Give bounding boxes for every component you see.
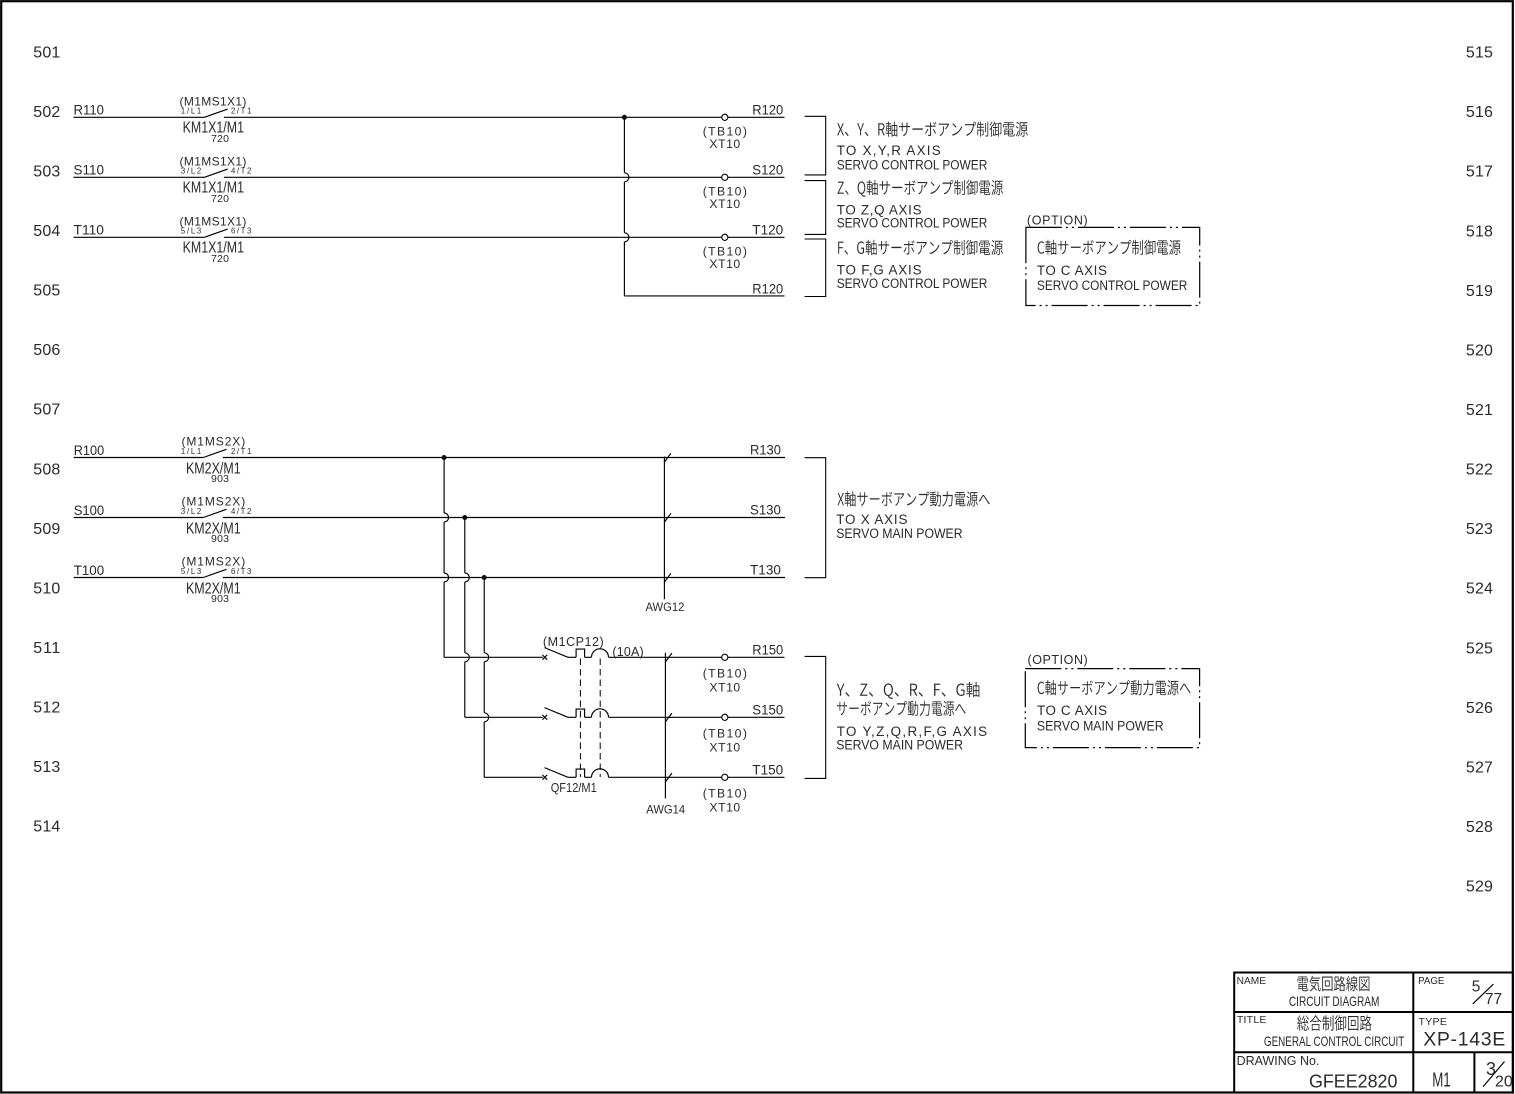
svg-text:(M1CP12): (M1CP12) [543,635,604,649]
svg-text:SERVO MAIN POWER: SERVO MAIN POWER [836,526,963,541]
contactor contact KM2X/M1 pole 3/L2-4/T2 [203,509,226,517]
wire breaker pole 2 to terminal S150 [609,716,785,718]
circuit breaker QF12/M1 pole 3 [542,768,608,780]
svg-text:T150: T150 [752,761,783,777]
svg-text:4/T2: 4/T2 [231,507,251,516]
annotation Z,Q axis servo control power (JP) [838,180,1003,197]
wire breaker pole 1 to terminal R150 [609,656,785,658]
svg-text:M1: M1 [1432,1069,1451,1092]
svg-text:510: 510 [33,580,60,597]
svg-text:513: 513 [33,759,60,776]
svg-text:XT10: XT10 [709,197,740,211]
wire hop over R150 wire [465,653,470,662]
annotation X,Y,R axis servo control power (JP) [837,122,1028,137]
svg-text:(OPTION): (OPTION) [1027,214,1088,228]
svg-text:5: 5 [1472,979,1481,996]
wire hop over T-row wire [624,233,629,242]
svg-text:GENERAL CONTROL CIRCUIT: GENERAL CONTROL CIRCUIT [1264,1033,1405,1049]
svg-text:XT10: XT10 [709,740,740,754]
svg-text:503: 503 [33,163,60,180]
svg-text:R100: R100 [74,442,105,458]
svg-text:(TB10): (TB10) [703,787,747,801]
wire to breaker pole 3 [484,776,543,778]
wire R100 to R130 [223,457,785,459]
svg-text:TO C AXIS: TO C AXIS [1037,703,1107,718]
wire T100 branch down to breaker pole 3 [483,578,485,653]
svg-text:XT10: XT10 [709,800,740,814]
svg-text:1/L1: 1/L1 [181,107,201,116]
junction node R120 bus [622,115,627,120]
svg-text:TITLE: TITLE [1237,1014,1267,1026]
wire T100 to T130 [223,577,785,579]
circuit breaker QF12/M1 pole 2 [542,708,608,720]
svg-text:SERVO MAIN POWER: SERVO MAIN POWER [1037,718,1164,733]
svg-text:504: 504 [33,223,60,240]
terminal XT10 S120 [722,174,728,180]
wire to breaker pole 2 [465,716,543,718]
wire T110 to terminal T120 [224,236,785,238]
wire bus vertical segment [623,242,625,296]
contactor contact KM2X/M1 pole 1/L1-2/T1 [203,449,226,457]
junction node S100 branch [462,515,467,520]
svg-text:S120: S120 [752,162,783,178]
svg-text:R120: R120 [752,280,783,296]
svg-text:525: 525 [1466,640,1493,657]
option box C axis servo control power [1026,227,1200,305]
wire hop over S100 wire [444,513,449,522]
svg-text:T100: T100 [74,562,105,578]
svg-text:517: 517 [1466,164,1493,181]
svg-text:T130: T130 [750,562,781,578]
svg-text:1/L1: 1/L1 [181,447,201,456]
terminal XT10 S150 [722,714,728,720]
svg-text:(OPTION): (OPTION) [1028,653,1088,667]
svg-text:S130: S130 [750,502,781,518]
svg-text:77: 77 [1485,991,1502,1008]
svg-text:903: 903 [211,593,229,605]
wire S100 left segment [74,517,204,519]
contactor contact KM1X1/M1 pole 3/L2-4/T2 [204,169,227,177]
svg-text:522: 522 [1466,462,1493,479]
svg-text:514: 514 [33,819,60,836]
svg-text:508: 508 [33,461,60,478]
svg-text:518: 518 [1466,223,1493,240]
wire R100 branch down to breaker pole 1 [443,458,445,514]
svg-text:720: 720 [211,193,229,205]
svg-text:3/L2: 3/L2 [181,167,201,176]
wire S110 to terminal S120 [224,176,785,178]
svg-text:3/L2: 3/L2 [181,507,201,516]
svg-text:(10A): (10A) [612,645,643,659]
svg-text:CIRCUIT DIAGRAM: CIRCUIT DIAGRAM [1289,993,1380,1009]
junction node T100 branch [482,575,487,580]
title JP circuit diagram [1298,976,1370,992]
svg-text:XT10: XT10 [709,680,740,694]
svg-text:524: 524 [1466,581,1493,598]
wire R100 left segment [74,457,204,459]
svg-text:903: 903 [211,533,229,545]
contactor contact KM1X1/M1 pole 1/L1-2/T1 [204,109,227,117]
annotation bracket [805,181,826,235]
svg-text:519: 519 [1466,283,1493,300]
svg-text:QF12/M1: QF12/M1 [551,781,597,795]
annotation bracket [805,239,826,297]
svg-text:S100: S100 [74,502,105,518]
wire hop over S-row wire [624,173,629,182]
svg-text:(TB10): (TB10) [703,727,747,741]
svg-text:AWG12: AWG12 [646,600,685,614]
breaker mechanical linkage dashed lines [579,659,581,778]
annotation servo amp main power (JP) [837,701,966,716]
svg-text:SERVO CONTROL POWER: SERVO CONTROL POWER [1037,278,1188,293]
annotation bracket [805,116,826,175]
terminal XT10 T120 [722,234,728,240]
svg-text:DRAWING No.: DRAWING No. [1237,1053,1320,1068]
wire breaker pole 3 to terminal T150 [609,776,785,778]
svg-text:R110: R110 [74,102,105,118]
svg-text:6/T3: 6/T3 [231,567,251,576]
circuit breaker QF12/M1 pole 1 [542,648,608,660]
wire S100 branch down to breaker pole 2 [464,518,466,574]
wire hop over T100 wire [444,573,448,582]
svg-text:GFEE2820: GFEE2820 [1309,1070,1397,1091]
wire T110 left segment [74,236,205,238]
junction node R100 branch [442,455,447,460]
svg-text:520: 520 [1466,343,1493,360]
annotation F,G axis servo control power (JP) [838,240,1003,255]
svg-text:TO C AXIS: TO C AXIS [1037,263,1107,278]
svg-text:20: 20 [1495,1074,1513,1091]
svg-text:5/L3: 5/L3 [181,567,201,576]
svg-text:523: 523 [1466,521,1493,538]
annotation bracket [805,656,826,778]
svg-text:XP-143E: XP-143E [1423,1028,1505,1050]
wire R110 to terminal R120 [224,116,785,118]
svg-text:521: 521 [1466,402,1493,419]
wire hop over R150 wire [484,653,489,662]
svg-text:6/T3: 6/T3 [231,227,251,236]
wire to breaker pole 1 [444,656,543,658]
svg-text:SERVO CONTROL POWER: SERVO CONTROL POWER [837,276,988,291]
svg-text:4/T2: 4/T2 [231,167,251,176]
svg-text:(TB10): (TB10) [703,667,747,681]
terminal XT10 R120 [722,114,728,120]
svg-text:516: 516 [1466,104,1493,121]
svg-text:PAGE: PAGE [1418,975,1444,987]
svg-text:SERVO CONTROL POWER: SERVO CONTROL POWER [837,157,988,172]
contactor contact KM1X1/M1 pole 5/L3-6/T3 [204,229,227,237]
svg-text:XT10: XT10 [709,137,740,151]
svg-text:TYPE: TYPE [1419,1016,1447,1028]
annotation C axis servo main power (JP) [1038,680,1191,695]
svg-text:R130: R130 [750,442,781,458]
annotation Y,Z,Q,R,F,G axis (JP) [837,682,980,699]
wire R120 bottom branch [624,295,784,297]
svg-text:526: 526 [1466,700,1493,717]
contactor contact KM2X/M1 pole 5/L3-6/T3 [203,569,226,577]
svg-text:903: 903 [211,473,229,485]
wire hop over S150 wire [484,713,489,722]
wire R110 left segment [74,116,205,118]
svg-text:720: 720 [211,253,229,265]
svg-text:R120: R120 [752,102,783,118]
svg-text:501: 501 [33,44,60,61]
svg-text:527: 527 [1466,759,1493,776]
terminal XT10 T150 [722,774,728,780]
svg-text:529: 529 [1466,879,1493,896]
svg-text:R150: R150 [752,641,783,657]
svg-text:515: 515 [1466,45,1493,62]
svg-text:506: 506 [33,342,60,359]
svg-text:XT10: XT10 [709,257,740,271]
cable gauge marker AWG12 [663,457,665,600]
title block [1234,973,1513,1093]
svg-text:T120: T120 [752,222,783,238]
svg-text:5/L3: 5/L3 [181,227,201,236]
wire S100 to S130 [223,517,785,519]
svg-text:AWG14: AWG14 [646,803,685,817]
svg-text:TO X AXIS: TO X AXIS [836,512,907,527]
terminal XT10 R150 [722,654,728,660]
title JP general control circuit [1297,1015,1371,1031]
svg-text:SERVO CONTROL POWER: SERVO CONTROL POWER [837,216,988,231]
svg-text:528: 528 [1466,819,1493,836]
svg-text:505: 505 [33,283,60,300]
svg-text:512: 512 [33,700,60,717]
svg-text:509: 509 [33,521,60,538]
wire R120 bus vertical [623,117,625,173]
svg-text:SERVO MAIN POWER: SERVO MAIN POWER [836,738,963,753]
svg-text:720: 720 [211,133,229,145]
annotation C axis servo control power (JP) [1038,240,1181,255]
svg-text:507: 507 [33,402,60,419]
wire hop over T100 wire [465,573,469,582]
svg-text:TO X,Y,R AXIS: TO X,Y,R AXIS [837,143,941,158]
svg-text:2/T1: 2/T1 [231,107,251,116]
wire S110 left segment [74,176,205,178]
annotation bracket [805,458,826,578]
svg-text:502: 502 [33,104,60,121]
annotation X axis servo main power (JP) [838,491,990,506]
svg-text:2/T1: 2/T1 [231,447,251,456]
svg-text:S110: S110 [74,162,105,178]
wire T100 left segment [74,577,204,579]
option box C axis servo main power [1025,669,1199,748]
cable gauge marker AWG14 [664,653,666,799]
svg-text:511: 511 [33,640,60,657]
svg-text:NAME: NAME [1237,975,1266,987]
wire bus vertical segment [623,182,625,233]
svg-text:T110: T110 [74,222,105,238]
svg-text:S150: S150 [752,701,783,717]
